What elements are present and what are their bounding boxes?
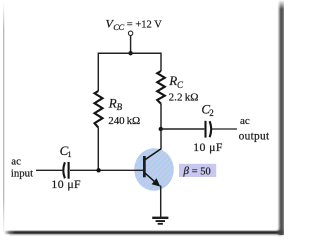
svg-text:= +12 V: = +12 V <box>127 20 162 31</box>
transistor highlight ellipse <box>134 148 174 191</box>
svg-text:input: input <box>11 167 33 179</box>
label VCC = +12 V <box>106 17 163 32</box>
wire: right branch between RC and output node <box>160 104 162 129</box>
svg-text:C: C <box>177 80 184 90</box>
wire: VCC terminal down to top rail <box>130 36 132 54</box>
wire: output wire left of C2 <box>161 128 204 130</box>
svg-text:240 kΩ: 240 kΩ <box>108 115 140 127</box>
svg-text:β: β <box>183 165 190 177</box>
wire: top rail <box>98 52 161 54</box>
transistor Q1 emitter arrowhead <box>152 178 161 186</box>
svg-text:10 μF: 10 μF <box>51 177 81 191</box>
svg-text:10 μF: 10 μF <box>193 140 223 154</box>
wire: emitter down to ground <box>160 186 162 218</box>
label ac output <box>239 115 270 142</box>
node: collector/output junction dot <box>159 127 163 131</box>
VCC terminal (open circle) <box>128 31 132 35</box>
transistor Q1 base bar <box>143 156 146 177</box>
svg-text:2: 2 <box>209 108 214 118</box>
node: base/RB junction dot <box>96 168 100 172</box>
svg-text:ac: ac <box>11 156 21 168</box>
svg-text:ac: ac <box>240 115 250 127</box>
resistor RB <box>95 91 103 128</box>
wire: collector node down to transistor collector <box>160 129 162 149</box>
wire: right branch upper segment <box>160 53 162 72</box>
resistor RC <box>157 71 165 104</box>
svg-text:R: R <box>108 96 117 111</box>
svg-text:R: R <box>168 73 177 88</box>
label RC <box>168 73 184 90</box>
svg-text:output: output <box>239 130 270 142</box>
capacitor C2 <box>206 121 212 138</box>
wire: base wire C1 to transistor base <box>70 169 143 171</box>
wire: left branch lower segment <box>97 128 99 171</box>
node: junction dot on top rail <box>128 51 132 55</box>
label ac input <box>11 156 33 180</box>
svg-text:1: 1 <box>67 149 71 159</box>
capacitor C1 <box>63 162 68 179</box>
ground symbol <box>152 217 168 225</box>
transistor Q1 collector line <box>145 149 162 160</box>
wire: input wire left of C1 <box>36 169 62 171</box>
label C1 <box>60 143 72 159</box>
svg-text:B: B <box>117 102 123 112</box>
svg-text:= 50: = 50 <box>192 166 211 177</box>
label RB <box>108 96 123 112</box>
label beta = 50 (highlight box) <box>179 164 216 178</box>
wire: output wire right of C2 <box>212 128 237 130</box>
transistor Q1 emitter line <box>145 173 159 185</box>
label C2 <box>201 102 213 119</box>
wire: left branch upper segment <box>97 53 99 92</box>
svg-text:CC: CC <box>113 22 124 32</box>
svg-text:2.2 kΩ: 2.2 kΩ <box>169 92 199 104</box>
